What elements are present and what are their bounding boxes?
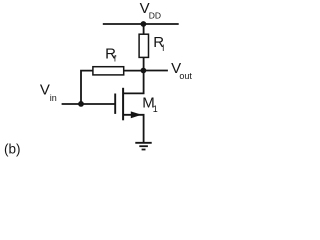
svg-text:out: out [179,71,192,81]
svg-text:(b): (b) [4,141,21,156]
wire Vout stub [143,70,168,72]
wire Rf to Vout node [124,70,144,72]
transistor M1 source arrow [131,111,142,118]
wire VDD rail to Rl [143,24,145,34]
node Vin junction dot [78,101,84,107]
wire Rf left leg down to gate wire [81,71,93,104]
wire Vin to gate [62,103,115,105]
wire drain to Vout node [123,71,144,94]
node VDD junction dot [141,21,147,27]
svg-text:V: V [40,82,50,99]
ground [135,143,151,150]
svg-text:in: in [50,93,57,103]
svg-text:f: f [114,54,117,64]
transistor M1 gate bar [114,94,116,114]
svg-text:1: 1 [153,104,158,114]
resistor Rf [93,67,124,75]
wire source to ground [123,115,144,143]
svg-text:l: l [162,43,164,53]
transistor M1 channel bar [122,88,124,121]
VDD rail wire [103,23,179,25]
svg-text:DD: DD [149,11,161,21]
wire Rl to Vout node [143,57,145,70]
resistor Rl [139,34,148,57]
node Vout junction dot [141,68,147,74]
